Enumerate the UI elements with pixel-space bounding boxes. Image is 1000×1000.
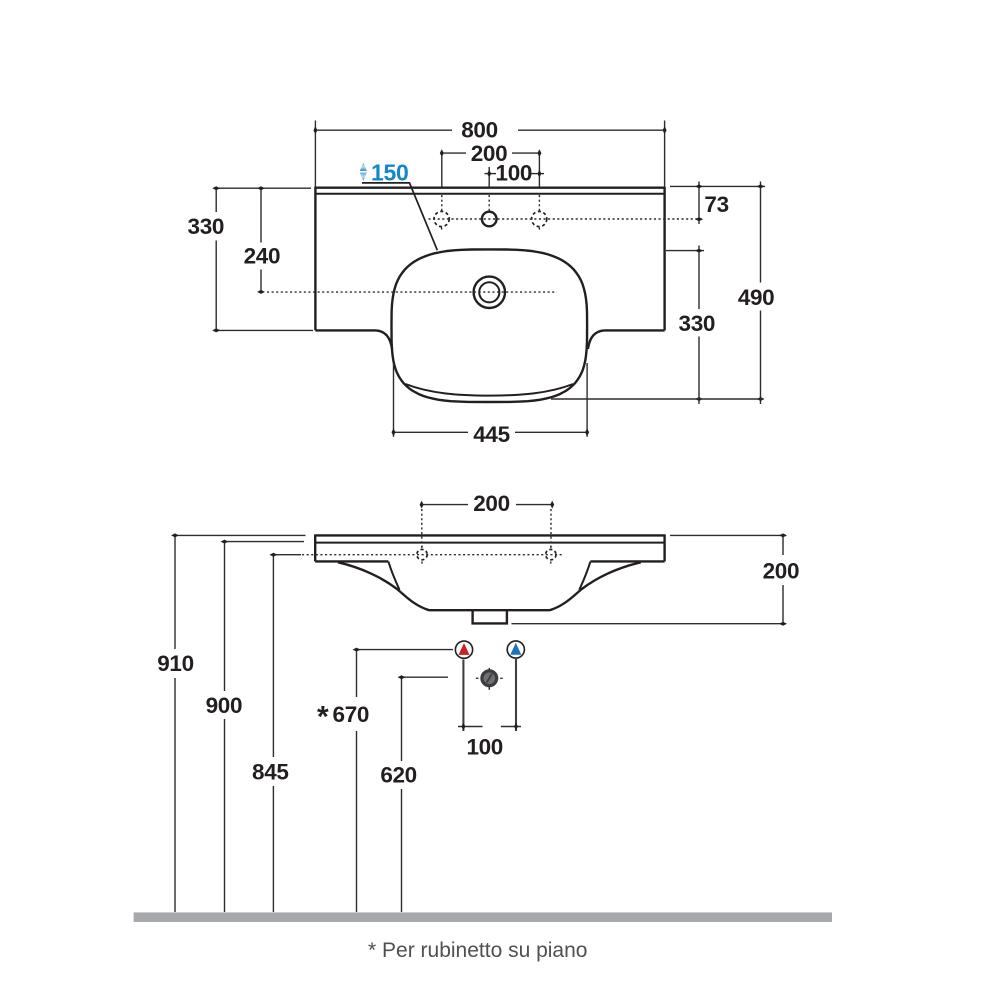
faucet hole right (dashed) bbox=[532, 211, 547, 226]
svg-text:100: 100 bbox=[466, 735, 503, 760]
faucet hole left (dashed) bbox=[434, 211, 449, 226]
svg-text:845: 845 bbox=[252, 760, 289, 785]
svg-text:900: 900 bbox=[206, 693, 243, 718]
extension drain bottom right bbox=[512, 623, 787, 625]
drain plan outer bbox=[474, 277, 505, 308]
svg-text:490: 490 bbox=[738, 285, 775, 310]
svg-text:73: 73 bbox=[704, 192, 728, 217]
fillet left bbox=[377, 330, 393, 349]
svg-text:445: 445 bbox=[473, 422, 510, 447]
centerline through holes (dotted) bbox=[429, 218, 703, 220]
deck outline elevation bbox=[315, 534, 664, 561]
leader from 150 to basin bbox=[362, 183, 437, 250]
dimension 73 bbox=[670, 182, 765, 225]
extension deck top right bbox=[670, 534, 786, 536]
svg-text:670: 670 bbox=[333, 702, 370, 727]
extension line basin bottom bbox=[551, 398, 764, 400]
faucet hole left elevation bbox=[417, 546, 427, 565]
dimension 240 bbox=[244, 186, 281, 294]
dimension 330 left bbox=[188, 186, 313, 332]
dimension 620 bbox=[380, 675, 448, 912]
dimension 490 bbox=[738, 182, 775, 405]
dimension 910 bbox=[157, 533, 305, 912]
drain box bbox=[473, 610, 507, 624]
dimension 330 right bbox=[666, 246, 715, 405]
svg-text:330: 330 bbox=[679, 311, 716, 336]
svg-text:330: 330 bbox=[188, 214, 225, 239]
svg-text:240: 240 bbox=[244, 244, 281, 269]
drain plan inner bbox=[479, 282, 499, 302]
svg-text:150: 150 bbox=[371, 160, 408, 186]
dimension 200 right elevation bbox=[763, 533, 800, 625]
svg-text:*: * bbox=[317, 701, 329, 734]
bowl inner wing left bbox=[388, 562, 399, 590]
svg-text:200: 200 bbox=[473, 491, 510, 516]
faucet hole right elevation bbox=[546, 546, 556, 565]
dimension 100 plan bbox=[485, 160, 545, 210]
cold water symbol (blue) bbox=[507, 641, 524, 658]
floor bbox=[134, 912, 832, 922]
centerline through drain (dotted) bbox=[267, 291, 557, 293]
fillet right bbox=[588, 330, 604, 349]
dimension 670 bbox=[317, 648, 453, 912]
faucet hole center bbox=[482, 212, 497, 227]
dimension 445 bbox=[392, 363, 590, 447]
valve symbol (gray) bbox=[476, 668, 503, 690]
dimension 200 plan bbox=[440, 141, 542, 231]
dimension 845 bbox=[252, 553, 301, 912]
basin oval outer bbox=[392, 249, 588, 402]
hot water symbol (red) bbox=[455, 641, 472, 658]
bowl inner wing right bbox=[579, 562, 590, 590]
svg-text:* Per rubinetto su piano: * Per rubinetto su piano bbox=[368, 939, 587, 962]
svg-text:800: 800 bbox=[461, 117, 498, 142]
label 150 (blue) with double arrow bbox=[360, 160, 409, 186]
svg-text:100: 100 bbox=[496, 160, 533, 185]
svg-text:910: 910 bbox=[157, 651, 194, 676]
svg-text:620: 620 bbox=[380, 763, 417, 788]
bowl outer profile bbox=[338, 562, 641, 610]
dimension 200 top elevation bbox=[420, 491, 555, 549]
deck outline plan bbox=[315, 187, 664, 331]
dimension 100 elevation bbox=[458, 659, 521, 760]
svg-text:200: 200 bbox=[763, 558, 800, 583]
centerline through holes elevation (dotted) bbox=[302, 554, 562, 556]
dimension 900 bbox=[206, 540, 304, 912]
basin inner bottom arc bbox=[406, 384, 574, 396]
dimension 800 bbox=[313, 117, 666, 186]
